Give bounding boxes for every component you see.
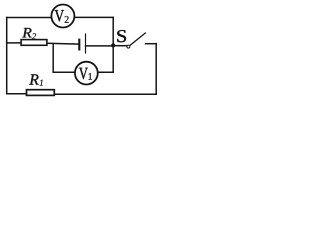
switch S blade [130,33,146,46]
wire left vertical [6,18,8,94]
wire V1 right [98,71,114,73]
battery cell negative plate (short) [78,39,80,51]
resistor R1 [27,90,55,96]
label R1 letter R [29,74,38,84]
wire right upper vertical [112,17,114,72]
label R2 letter R [22,28,31,37]
wire bottom left [7,93,27,95]
junction node dot [111,43,115,47]
label V1 subscript 1 [88,73,92,80]
label S (switch) [117,30,126,42]
wire junction to switch [113,45,127,47]
label V1 letter V [79,68,88,79]
wire right vertical [155,44,157,94]
label V2 letter V [55,10,64,21]
wire battery to junction [86,45,114,47]
label R2 subscript 2 [32,33,36,39]
wire V1 tap vertical [52,44,54,72]
switch S pivot circle [127,45,130,48]
label V2 subscript 2 [65,16,69,23]
wire switch right stub [146,43,157,45]
resistor R2 [21,40,47,46]
wire top left (to V2) [7,17,52,19]
voltmeter V2 [51,5,74,28]
wire top right (V2 to corner) [74,16,113,18]
voltmeter V1 [75,62,98,85]
label R1 subscript 1 [40,80,43,86]
wire R2 to battery [47,42,79,45]
wire middle row left stub [7,42,22,44]
wire V1 left [53,71,75,73]
wire bottom right [54,93,156,95]
battery cell positive plate (long) [85,33,87,53]
